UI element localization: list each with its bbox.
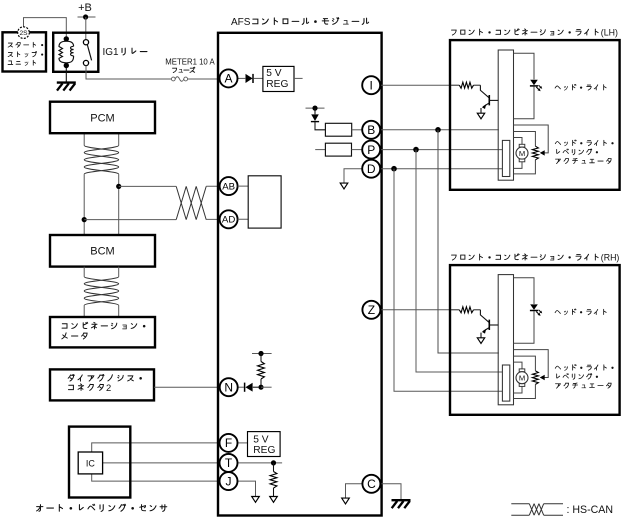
label auto leveling sensor	[37, 504, 167, 511]
node supply stub (N channel)	[252, 351, 272, 356]
wire R3 to pin P	[352, 149, 363, 151]
relay coil L1	[59, 36, 74, 68]
LED headlight (LH)	[530, 80, 542, 92]
label combination meter	[62, 322, 146, 339]
svg-text:P: P	[367, 143, 375, 157]
pin T	[220, 454, 238, 472]
wire pin D to lights	[380, 168, 502, 170]
diagnosis connector 2 box	[50, 369, 154, 400]
svg-text:: HS-CAN: : HS-CAN	[567, 504, 614, 516]
svg-text:IG1: IG1	[103, 47, 120, 58]
svg-text:METER1 10 A: METER1 10 A	[165, 57, 215, 66]
node junction T	[271, 460, 276, 465]
motor M (RH)	[516, 369, 528, 387]
wire start/stop unit 2S to relay coil	[24, 18, 67, 37]
wire pin I to LH light	[380, 84, 451, 86]
pin D	[362, 160, 380, 178]
label headlight leveling actuator (LH)	[555, 140, 613, 164]
wire motor branch (RH)	[514, 362, 523, 393]
combination meter box	[50, 317, 155, 347]
ground (C, open triangle)	[342, 498, 350, 504]
ground (relay)	[57, 81, 76, 83]
wire twist under BCM	[84, 277, 119, 306]
svg-text:T: T	[225, 456, 233, 470]
wire twisted pair PCM to BCM	[84, 133, 119, 235]
pin P	[362, 141, 380, 159]
wire +B to relay switch	[85, 17, 87, 40]
headlight connector strip (LH)	[498, 50, 513, 180]
actuator connector (RH)	[502, 365, 509, 401]
headlight connector strip (RH)	[498, 275, 513, 405]
svg-text:(LH): (LH)	[601, 27, 618, 37]
wire diagnosis connector to pin N	[154, 386, 220, 388]
svg-text:PCM: PCM	[90, 113, 114, 125]
svg-text:5 V: 5 V	[266, 68, 281, 79]
ground (chassis, right of C)	[392, 499, 411, 501]
wire stub to resistor R3	[315, 149, 325, 151]
svg-text:5 V: 5 V	[253, 434, 268, 445]
CAN transceiver block	[248, 176, 281, 228]
AFS control module box U1	[218, 33, 382, 516]
label headlight (RH)	[555, 309, 606, 315]
5V REG regulator (top)	[263, 66, 294, 91]
pin AB	[220, 177, 238, 195]
wire AB AD to CAN block	[238, 186, 249, 219]
relay switch S1	[83, 40, 91, 66]
resistor R4 (N pull-up)	[258, 354, 265, 388]
node junction B branch	[435, 127, 441, 133]
svg-text:IC: IC	[86, 459, 96, 469]
svg-text:AB: AB	[222, 182, 235, 193]
wire relay switch to fuse	[86, 66, 171, 80]
wire CAN pair to module AB/AD	[84, 186, 220, 219]
IC U2	[78, 452, 102, 474]
node supply stub (B channel)	[306, 106, 325, 111]
wire pin T with stub	[238, 462, 282, 464]
label METER1 10 A fuse	[165, 57, 215, 72]
svg-text:Z: Z	[368, 303, 375, 317]
label diagnosis connector 2	[68, 374, 142, 392]
wire pin F to 5V REG	[238, 442, 248, 444]
svg-text:M: M	[519, 149, 525, 158]
pin N	[220, 378, 238, 396]
svg-text:2S: 2S	[19, 30, 28, 37]
wire P branch to RH light	[416, 150, 502, 372]
wire pin Z to RH light	[380, 309, 451, 311]
wire pin B to lights	[380, 129, 499, 131]
svg-text:M: M	[519, 373, 525, 382]
svg-text:2: 2	[106, 382, 111, 393]
ground (transistor emitter LH)	[477, 113, 484, 119]
diode D3 (N line)	[245, 383, 259, 392]
transistor Q (RH)	[480, 310, 498, 338]
wire B branch to RH light	[438, 130, 499, 353]
svg-text:BCM: BCM	[90, 246, 114, 258]
wire LED loop (RH)	[514, 278, 535, 344]
arrow potentiometer wiper (RH)	[540, 375, 545, 380]
auto leveling sensor box	[69, 427, 130, 498]
pin C	[362, 475, 380, 493]
svg-text:AD: AD	[222, 215, 235, 226]
pin J	[220, 472, 238, 490]
node junction on CAN-H to AB	[116, 184, 121, 189]
svg-text:N: N	[224, 381, 233, 395]
label AFS control module	[231, 17, 369, 28]
label IG1 relay	[103, 47, 147, 58]
svg-text:+B: +B	[78, 2, 92, 14]
pin A	[220, 69, 238, 87]
ground (J, open triangle)	[252, 497, 260, 503]
ground (T, open triangle)	[270, 497, 278, 503]
wire motor branch (LH)	[514, 138, 523, 169]
arrow potentiometer wiper (LH)	[540, 150, 545, 155]
svg-text:C: C	[367, 477, 376, 491]
svg-text:AFS: AFS	[231, 17, 251, 28]
label start/stop unit text	[8, 42, 43, 65]
wire relay coil to ground	[65, 68, 67, 82]
pin B	[362, 121, 380, 139]
front combination light LH box	[450, 40, 620, 190]
motor M (LH)	[516, 144, 528, 162]
node junction P branch	[413, 147, 419, 153]
pin F	[220, 434, 238, 452]
wire 5V REG stub	[294, 77, 303, 79]
wire pin C to chassis ground	[380, 484, 401, 500]
node junction D branch	[391, 166, 397, 172]
svg-text:F: F	[225, 436, 232, 450]
wire LED loop (LH)	[514, 53, 535, 119]
pin AD	[220, 210, 238, 228]
wire actuator feedback (RH)	[514, 350, 549, 378]
wire potentiometer branch (RH)	[514, 356, 536, 398]
resistor R (LH base)	[451, 82, 480, 88]
wire pin P to lights	[380, 149, 502, 151]
resistor R2 (box, B line)	[325, 123, 351, 136]
connector 2S	[18, 27, 30, 39]
label front combination light LH	[452, 27, 618, 37]
resistor R (RH base)	[451, 307, 480, 313]
svg-text:A: A	[224, 72, 232, 86]
resistor R5 (T pull-down)	[270, 463, 277, 496]
wire sensor IC to pins F T J	[92, 443, 220, 481]
wire actuator feedback (LH)	[514, 125, 549, 153]
wire R2 to pin B	[352, 129, 363, 131]
label front combination light RH	[452, 252, 620, 262]
wire twist under PCM	[84, 145, 119, 174]
ground (transistor emitter RH)	[477, 338, 484, 344]
wire pin A to diode	[238, 77, 246, 79]
wire twisted pair BCM to combination meter	[84, 267, 119, 317]
label headlight (LH)	[555, 84, 606, 90]
wire diode to 5V REG	[253, 77, 263, 79]
pin Z	[362, 301, 380, 319]
diode D1	[246, 74, 254, 83]
start/stop unit box	[3, 32, 47, 71]
5V REG regulator (bottom)	[248, 432, 281, 457]
wire fuse to pin A	[188, 78, 220, 80]
IG1 relay box	[53, 33, 98, 72]
svg-text:(RH): (RH)	[601, 252, 620, 262]
legend HS-CAN twisted pair	[511, 504, 563, 516]
potentiometer VR (LH)	[532, 146, 538, 160]
LED headlight (RH)	[530, 304, 542, 316]
node junction on CAN-L to AD	[82, 217, 87, 222]
svg-text:D: D	[367, 162, 376, 176]
BCM box	[50, 235, 155, 267]
svg-text:B: B	[367, 123, 375, 137]
potentiometer VR (RH)	[532, 371, 538, 385]
svg-text:REG: REG	[253, 445, 275, 456]
wire pin D to floating ground	[344, 169, 362, 183]
ground (pin D, open triangle)	[340, 183, 348, 189]
svg-text:I: I	[370, 79, 373, 93]
diode D2 (to B)	[311, 108, 319, 122]
wire pin C to floating ground	[346, 484, 363, 498]
wire diode to resistor R2	[315, 122, 325, 130]
node +B supply	[78, 2, 96, 19]
fuse METER1 10A	[171, 77, 187, 82]
label headlight leveling actuator (RH)	[555, 365, 613, 389]
resistor R3 (box, P line)	[325, 143, 351, 156]
wire twist to AB/AD	[176, 186, 206, 219]
pin I	[362, 76, 380, 94]
wire pin N to diode	[238, 386, 244, 388]
PCM box	[50, 102, 155, 134]
node junction N	[258, 385, 271, 390]
transistor Q (LH)	[480, 85, 498, 113]
wire pin J to ground	[238, 481, 256, 496]
svg-text:J: J	[226, 474, 232, 488]
wire potentiometer branch (LH)	[514, 132, 536, 174]
svg-text:REG: REG	[266, 79, 288, 90]
wire D branch to RH light	[394, 169, 502, 392]
front combination light RH box	[450, 265, 620, 415]
actuator connector (LH)	[502, 140, 509, 176]
